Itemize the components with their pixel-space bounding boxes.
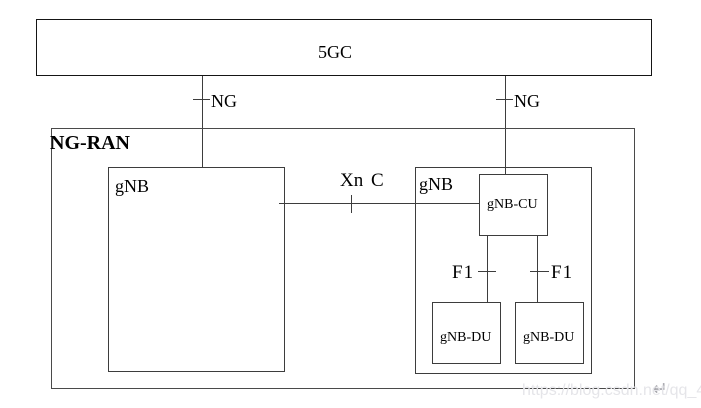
tick NG right [496,99,513,100]
label Xn C [340,171,384,190]
label NG right [514,92,540,110]
label gNB-CU [487,198,538,212]
box gNB left [108,167,285,372]
wire NG left [202,76,203,167]
label NG left [211,92,237,110]
box gNB right [415,167,592,374]
label F1 left [452,263,474,282]
label gNB right [419,175,453,193]
label gNB-DU right [523,331,574,345]
box gNB-DU right [515,302,584,364]
tick NG left [193,99,210,100]
box 5GC [36,19,652,76]
box gNB-DU left [432,302,501,364]
wire F1 left [487,236,488,302]
wire Xn-C [279,203,479,204]
wire NG right [505,76,506,175]
tick Xn-C [351,195,352,213]
label F1 right [551,263,573,282]
tick F1 left [478,271,496,272]
watermark [522,383,701,399]
box gNB-CU [479,174,548,236]
box NG-RAN [51,128,635,389]
paragraph mark [652,380,668,399]
label NG-RAN [50,133,130,153]
label gNB left [115,177,149,195]
label gNB-DU left [440,331,491,345]
tick F1 right [530,271,549,272]
wire F1 right [537,236,538,302]
label 5GC [318,43,352,61]
